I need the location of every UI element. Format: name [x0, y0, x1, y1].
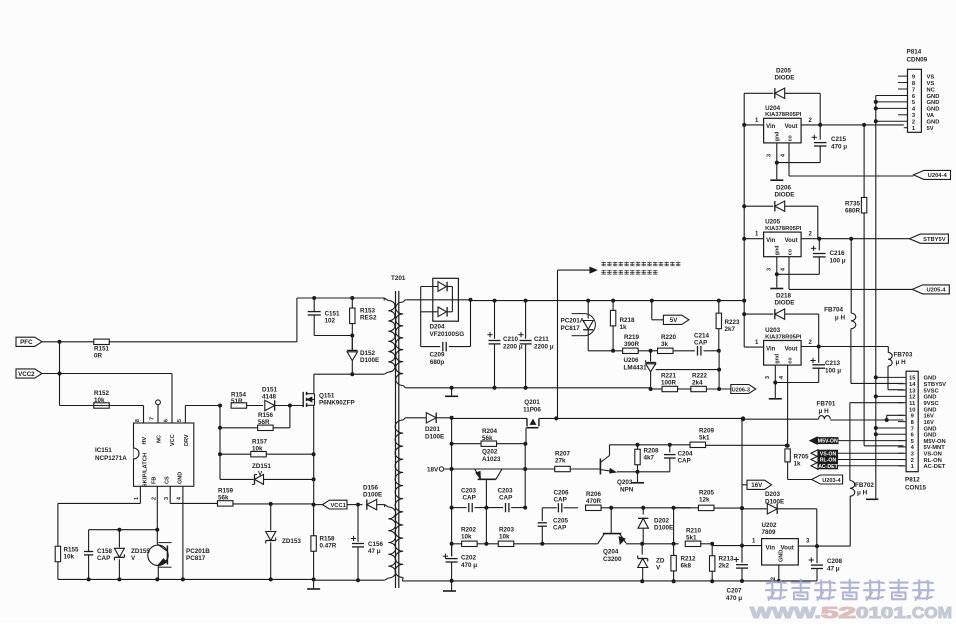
svg-text:FB701: FB701	[817, 401, 836, 408]
resistor R223 2k7	[718, 301, 720, 314]
resistor R207 27k	[452, 468, 555, 470]
svg-text:VF20100SG: VF20100SG	[430, 331, 465, 338]
svg-text:0R: 0R	[94, 353, 103, 360]
svg-text:D206: D206	[776, 185, 792, 192]
svg-text:co: co	[788, 248, 794, 255]
wire D151 to gate node	[276, 405, 304, 407]
svg-text:Vin: Vin	[766, 238, 776, 244]
svg-text:ZD: ZD	[656, 558, 665, 565]
svg-text:U203: U203	[765, 327, 781, 334]
svg-text:10k: 10k	[461, 534, 472, 541]
svg-text:NC: NC	[927, 87, 936, 93]
ground under C202	[450, 579, 454, 583]
wire vertical R154 node down	[219, 406, 221, 480]
bottom secondary rail	[402, 580, 817, 582]
svg-text:11P06: 11P06	[523, 407, 541, 414]
svg-text:GND: GND	[779, 550, 785, 562]
svg-text:co: co	[788, 134, 794, 141]
regulator bus vertical	[743, 93, 745, 347]
svg-text:gnd: gnd	[775, 245, 781, 255]
svg-text:R222: R222	[692, 373, 708, 380]
svg-text:CAP: CAP	[678, 458, 691, 465]
svg-text:R157: R157	[252, 439, 268, 446]
svg-text:CAP: CAP	[97, 555, 110, 562]
svg-text:C203: C203	[461, 488, 477, 495]
wire FB701 node to P812 pin9	[886, 415, 888, 420]
svg-text:15: 15	[909, 376, 916, 382]
svg-text:102: 102	[325, 318, 336, 325]
regulator U205 KIA378R05PI	[764, 232, 802, 257]
zener ZD155	[118, 530, 120, 548]
wire IC pin1 to R155	[139, 486, 141, 503]
U202 GND lead	[778, 565, 780, 581]
svg-text:P6NK90ZFP: P6NK90ZFP	[319, 400, 355, 407]
svg-text:C216: C216	[830, 250, 846, 257]
U206 ref wire	[656, 369, 720, 371]
chinese annotation arrow wire	[557, 270, 559, 418]
svg-text:DIODE: DIODE	[775, 192, 795, 199]
connector P812 CON15 box	[906, 371, 918, 472]
svg-text:8: 8	[135, 419, 141, 422]
svg-text:7: 7	[150, 417, 156, 420]
svg-text:12: 12	[909, 395, 915, 401]
svg-text:U205: U205	[765, 219, 781, 226]
svg-text:R151: R151	[94, 346, 110, 353]
svg-text:RL-ON: RL-ON	[924, 458, 942, 464]
flag U206-3	[731, 385, 756, 394]
pin 7 NC open circle	[157, 405, 159, 423]
rail junction dots	[777, 579, 781, 583]
svg-text:R203: R203	[499, 527, 515, 534]
svg-text:7: 7	[911, 426, 914, 432]
svg-text:PC817: PC817	[561, 325, 581, 332]
svg-text:RES2: RES2	[360, 315, 377, 322]
svg-text:10k: 10k	[499, 534, 510, 541]
svg-text:FB703: FB703	[894, 352, 913, 359]
svg-text:D152: D152	[360, 350, 376, 357]
connector P814 CDN09 box	[908, 69, 922, 132]
svg-text:R204: R204	[482, 428, 498, 435]
wire FB703 column	[887, 347, 889, 353]
svg-text:R223: R223	[725, 319, 741, 326]
capacitor C204	[669, 445, 671, 453]
U204 pins 3 4	[776, 143, 778, 163]
junction R213/R210 row	[740, 544, 744, 548]
flag U203-4	[812, 475, 843, 484]
svg-text:R155: R155	[64, 547, 80, 554]
transformer T201 core	[395, 291, 397, 588]
node DRV/R154	[218, 404, 222, 408]
svg-text:gnd: gnd	[775, 354, 781, 364]
svg-text:11: 11	[909, 401, 916, 407]
svg-text:16V: 16V	[751, 482, 763, 489]
svg-text:R202: R202	[461, 527, 477, 534]
svg-text:WWW.: WWW.	[750, 605, 821, 622]
svg-text:Q201: Q201	[524, 399, 540, 406]
svg-text:C207: C207	[726, 588, 742, 595]
U205 pin1 wire	[744, 238, 763, 240]
optocoupler PC201B phototransistor	[156, 530, 158, 544]
resistor R209 5k1	[690, 442, 706, 447]
svg-text:VS: VS	[927, 81, 935, 87]
svg-text:R208: R208	[644, 448, 660, 455]
wire FB701 node to P812 pin8	[887, 419, 904, 421]
secondary ground rail	[405, 387, 650, 389]
flag U205-4	[912, 285, 949, 294]
resistor R156 gate pulldown wire	[289, 406, 291, 428]
resistor R705 1k	[786, 444, 790, 448]
svg-text:R206: R206	[586, 491, 602, 498]
svg-text:680R: 680R	[845, 208, 861, 215]
svg-text:Vin: Vin	[766, 346, 776, 352]
resistor R213 2k2	[711, 544, 713, 556]
svg-text:U206-3: U206-3	[732, 387, 750, 393]
transformer T201 primary winding	[383, 298, 385, 301]
U206 anode rail with R221 R222	[651, 388, 663, 390]
svg-text:D100E: D100E	[765, 499, 784, 506]
svg-text:470 μ: 470 μ	[461, 562, 477, 569]
svg-text:47 μ: 47 μ	[827, 566, 840, 573]
wire Q202 base down	[485, 479, 487, 507]
svg-text:1k: 1k	[794, 461, 802, 468]
svg-text:C209: C209	[429, 352, 445, 359]
Q203 emitter row	[617, 471, 670, 473]
U205 output wire STBY5V	[801, 238, 909, 240]
5V secondary rail	[471, 300, 745, 302]
svg-text:R213: R213	[719, 556, 735, 563]
capacitor C158	[88, 530, 90, 552]
svg-text:5VSC: 5VSC	[924, 388, 940, 394]
svg-text:R210: R210	[686, 528, 702, 535]
svg-text:390R: 390R	[624, 341, 640, 348]
watermark url www.520101.com	[750, 605, 952, 622]
svg-text:R220: R220	[661, 334, 677, 341]
svg-text:R159: R159	[218, 488, 234, 495]
svg-text:100 μ: 100 μ	[825, 368, 841, 375]
svg-text:C208: C208	[827, 558, 843, 565]
resistor R204 56k	[452, 443, 481, 445]
svg-text:14: 14	[909, 382, 916, 388]
svg-text:5k1: 5k1	[686, 535, 697, 542]
svg-text:CDN09: CDN09	[907, 57, 928, 64]
svg-text:5k1: 5k1	[699, 435, 710, 442]
diode D152 snubber	[347, 349, 357, 351]
inductor FB704	[851, 313, 856, 329]
chinese annotation text line2	[601, 270, 605, 274]
wire PFC to R151	[42, 341, 94, 343]
capacitor C202 470u	[451, 544, 453, 557]
svg-text:PFC: PFC	[20, 339, 33, 346]
wire DRV pin5 to gate resistor	[184, 406, 186, 424]
transformer T201 aux winding	[388, 507, 395, 578]
capacitor C214	[673, 350, 695, 352]
svg-text:12k: 12k	[699, 497, 710, 504]
svg-text:C211: C211	[534, 336, 549, 343]
svg-text:GND: GND	[924, 395, 937, 401]
wire vertical PFC node down to VCC2/R152 rows	[59, 342, 61, 406]
svg-text:NPN: NPN	[620, 487, 634, 494]
svg-text:470 μ: 470 μ	[726, 595, 742, 602]
svg-text:GND: GND	[924, 407, 937, 413]
zener ZD151	[255, 474, 264, 484]
svg-text:R205: R205	[699, 490, 715, 497]
svg-text:Q203: Q203	[617, 479, 633, 486]
U202 7809 box	[762, 539, 799, 565]
svg-text:2k4: 2k4	[692, 380, 703, 387]
svg-text:D202: D202	[654, 518, 670, 525]
16V rail to FB701	[744, 418, 818, 420]
svg-text:D218: D218	[776, 293, 792, 300]
svg-text:3: 3	[164, 497, 170, 500]
svg-text:Q151: Q151	[319, 393, 335, 400]
U203 pin1 wire	[744, 346, 763, 348]
regulator U204 KIA378R05PI	[764, 118, 802, 143]
svg-text:0.47R: 0.47R	[320, 543, 337, 550]
svg-text:Q202: Q202	[482, 449, 498, 456]
svg-text:51R: 51R	[231, 398, 243, 405]
diode D151 4148	[265, 400, 275, 410]
flag 5V	[651, 301, 653, 320]
U202 Vout wire	[798, 545, 817, 547]
flag M5V-ON	[810, 437, 817, 444]
U205 pin4 to flag U205-4	[789, 288, 912, 290]
ground under R208	[637, 472, 639, 482]
feedback row wire	[588, 350, 622, 352]
U204 pin4 to flag U204-4	[789, 175, 914, 177]
svg-text:KIA378R05PI: KIA378R05PI	[765, 112, 802, 118]
svg-text:HV: HV	[142, 437, 148, 445]
svg-text:GND: GND	[924, 376, 937, 382]
capacitor C151	[313, 298, 315, 311]
resistor R158 current sense	[313, 505, 315, 536]
watermark chinese characters	[766, 580, 787, 600]
svg-text:GND: GND	[927, 100, 940, 106]
svg-text:C203: C203	[498, 488, 514, 495]
wire VCC2 to IC151 VCC pin	[42, 373, 172, 375]
svg-text:μ H: μ H	[896, 359, 907, 366]
svg-text:ZD153: ZD153	[282, 538, 301, 545]
flag PFC	[16, 337, 42, 346]
diode D205	[744, 92, 773, 94]
svg-text:KIA378R05PI: KIA378R05PI	[765, 226, 802, 232]
svg-text:10k: 10k	[94, 397, 105, 404]
svg-text:U205-4: U205-4	[926, 288, 946, 294]
svg-text:Vout: Vout	[785, 346, 798, 352]
diode D218	[744, 313, 773, 315]
node PFC/R152 junction	[58, 340, 62, 344]
svg-text:LM4431: LM4431	[624, 365, 648, 372]
svg-text:μ H: μ H	[819, 408, 830, 415]
svg-text:16V: 16V	[924, 420, 934, 426]
svg-text:μ H: μ H	[835, 315, 846, 322]
svg-text:2k2: 2k2	[719, 563, 730, 570]
resistor R155	[55, 546, 60, 562]
wire R151 to primary top corner	[110, 341, 297, 343]
resistor R159	[217, 501, 233, 506]
svg-text:470 μ: 470 μ	[831, 144, 847, 151]
svg-text:D100E: D100E	[363, 492, 382, 499]
svg-text:P814: P814	[907, 49, 922, 56]
svg-text:VCC1: VCC1	[330, 503, 346, 509]
svg-text:Q204: Q204	[603, 549, 619, 556]
IC U151 NCP1271A box	[134, 423, 194, 486]
svg-text:C205: C205	[553, 518, 569, 525]
svg-text:470R: 470R	[586, 498, 602, 505]
svg-text:C214: C214	[694, 333, 710, 340]
svg-text:T201: T201	[391, 275, 406, 282]
svg-text:C151: C151	[325, 311, 341, 318]
zener ZD153	[270, 504, 272, 531]
svg-text:VS-ON: VS-ON	[924, 452, 942, 458]
rail to aux winding bottom	[314, 579, 385, 581]
svg-text:R735: R735	[845, 201, 861, 208]
svg-text:AC-DET: AC-DET	[818, 464, 838, 470]
svg-text:10k: 10k	[64, 554, 75, 561]
wire base node down to R202/R203	[485, 508, 487, 544]
svg-text:FB702: FB702	[855, 482, 874, 489]
svg-text:D204: D204	[430, 324, 446, 331]
svg-text:D201: D201	[425, 426, 441, 433]
svg-text:CAP: CAP	[694, 340, 707, 347]
svg-text:U203-4: U203-4	[822, 478, 841, 484]
svg-text:PC201B: PC201B	[186, 548, 210, 555]
flag VCC1	[323, 500, 348, 509]
svg-text:100 μ: 100 μ	[830, 258, 846, 265]
svg-text:C215: C215	[831, 136, 847, 143]
svg-text:μ H: μ H	[857, 490, 868, 497]
svg-text:D100E: D100E	[360, 357, 379, 364]
resistor R220 3k	[658, 348, 674, 353]
svg-text:Vin: Vin	[766, 545, 776, 552]
resistor R735 680R	[863, 125, 865, 198]
capacitor C210 2200u	[494, 301, 496, 339]
svg-text:PC817: PC817	[186, 555, 206, 562]
svg-text:VA: VA	[927, 113, 935, 119]
zener ZD	[641, 544, 643, 555]
svg-text:IC151: IC151	[95, 447, 112, 454]
svg-text:KIA378R05PI: KIA378R05PI	[765, 334, 802, 340]
svg-text:10: 10	[909, 407, 915, 413]
resistor R202 10k	[452, 543, 462, 545]
svg-text:9VSC: 9VSC	[924, 401, 940, 407]
svg-text:R218: R218	[620, 317, 636, 324]
svg-text:U206: U206	[624, 357, 640, 364]
svg-text:CS: CS	[165, 476, 171, 484]
U205 gnd L-wire and ground	[777, 273, 820, 275]
svg-text:gnd: gnd	[775, 132, 781, 142]
wire Q201 to right	[539, 417, 744, 419]
svg-text:52: 52	[821, 605, 856, 622]
svg-text:STBY5V: STBY5V	[924, 382, 947, 388]
svg-text:R153: R153	[360, 308, 376, 315]
svg-text:6k8: 6k8	[681, 563, 692, 570]
svg-text:D156: D156	[363, 485, 379, 492]
U204 gnd L-wire and ground	[777, 162, 820, 164]
svg-text:DIODE: DIODE	[775, 75, 795, 82]
flag RL-ON	[811, 456, 818, 463]
svg-text:R207: R207	[555, 451, 571, 458]
svg-text:DRV: DRV	[184, 434, 190, 446]
svg-text:PC201A: PC201A	[561, 318, 585, 325]
inductor FB701	[819, 416, 831, 420]
flag VCC2	[16, 369, 42, 378]
svg-text:2: 2	[152, 497, 158, 500]
svg-text:NCP1271A: NCP1271A	[95, 455, 127, 462]
resistor R153 RES2	[350, 296, 354, 300]
transistor Q204 C3200	[610, 508, 612, 534]
regulator U203 KIA378R05PI	[764, 341, 802, 366]
svg-text:2200 μ: 2200 μ	[534, 344, 554, 351]
svg-text:D100E: D100E	[654, 525, 673, 532]
svg-text:3: 3	[767, 154, 773, 157]
svg-text:M5V-ON: M5V-ON	[924, 439, 946, 445]
svg-text:5V-MNT: 5V-MNT	[924, 445, 946, 451]
wire primary bottom to Q151 drain	[314, 373, 384, 375]
inductor FB702	[850, 481, 855, 497]
svg-text:1: 1	[134, 497, 140, 500]
resistor R218 1k	[612, 301, 614, 311]
D204 diode 1	[421, 286, 438, 288]
svg-text:C3200: C3200	[603, 556, 622, 563]
svg-text:D205: D205	[776, 68, 792, 75]
wire R154 to D151	[247, 405, 263, 407]
svg-text:STBY5V: STBY5V	[923, 237, 946, 243]
resistor R154	[231, 403, 247, 408]
svg-text:C213: C213	[825, 360, 841, 367]
node gate Q151	[288, 404, 292, 408]
resistor R151	[94, 339, 110, 344]
resistor R212 6k8	[673, 508, 675, 544]
svg-text:3k: 3k	[661, 341, 669, 348]
svg-text:GND: GND	[924, 426, 937, 432]
left ground rail	[58, 578, 314, 580]
chinese annotation text line1	[601, 262, 605, 266]
svg-text:GND: GND	[924, 433, 937, 439]
D204 diode 2	[421, 311, 438, 313]
wire FB702 to P812 pin11	[849, 403, 851, 481]
flag AC-DET	[811, 462, 818, 469]
capacitor C208 47u	[816, 546, 818, 563]
svg-text:co: co	[788, 357, 794, 364]
svg-text:13: 13	[909, 388, 916, 394]
P814 ground bus vertical	[875, 95, 877, 498]
wire Vout to FB702	[817, 545, 850, 547]
svg-text:R221: R221	[661, 373, 677, 380]
svg-text:A1023: A1023	[482, 456, 501, 463]
svg-text:5V: 5V	[927, 126, 934, 132]
svg-text:U204: U204	[765, 105, 781, 112]
capacitor C207 470u	[741, 546, 743, 563]
svg-text:Vout: Vout	[785, 238, 798, 244]
svg-text:DIODE: DIODE	[775, 300, 795, 307]
vertical 18V column	[451, 418, 453, 557]
capacitor C215 470u	[819, 125, 821, 140]
junction R205/D203	[740, 506, 744, 510]
svg-text:CON15: CON15	[905, 485, 926, 492]
capacitor C203 b	[486, 507, 503, 509]
svg-text:D203: D203	[765, 491, 781, 498]
svg-text:R219: R219	[624, 334, 640, 341]
resistor R208 4k7	[637, 445, 639, 450]
svg-text:FB704: FB704	[824, 307, 843, 314]
svg-text:GND: GND	[178, 472, 184, 484]
svg-text:CAP: CAP	[499, 495, 512, 502]
svg-text:VS: VS	[927, 74, 935, 80]
svg-text:16V: 16V	[924, 414, 934, 420]
svg-text:56R: 56R	[258, 419, 270, 426]
resistor R203 10k	[486, 543, 498, 545]
svg-text:VCC2: VCC2	[18, 371, 35, 378]
